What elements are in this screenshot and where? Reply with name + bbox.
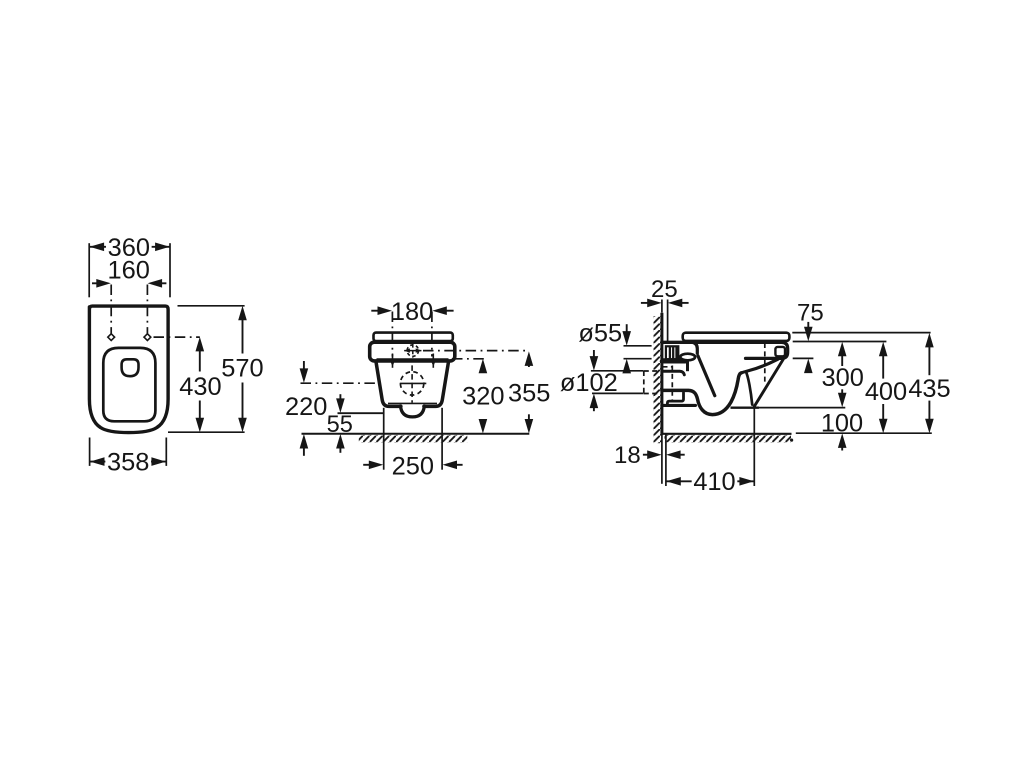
svg-text:25: 25 bbox=[651, 276, 678, 303]
svg-text:180: 180 bbox=[391, 298, 433, 326]
svg-text:355: 355 bbox=[508, 380, 550, 408]
svg-text:18: 18 bbox=[614, 442, 641, 469]
svg-text:430: 430 bbox=[179, 373, 221, 401]
svg-text:410: 410 bbox=[693, 468, 735, 496]
svg-text:ø102: ø102 bbox=[560, 369, 618, 397]
svg-text:400: 400 bbox=[865, 378, 907, 406]
svg-text:300: 300 bbox=[822, 364, 864, 392]
svg-text:75: 75 bbox=[797, 299, 824, 326]
svg-text:55: 55 bbox=[327, 412, 353, 438]
svg-text:358: 358 bbox=[107, 449, 149, 477]
svg-text:100: 100 bbox=[821, 409, 863, 437]
svg-text:570: 570 bbox=[221, 355, 263, 383]
svg-text:435: 435 bbox=[908, 375, 950, 403]
svg-text:250: 250 bbox=[392, 453, 434, 481]
svg-text:160: 160 bbox=[108, 257, 150, 285]
svg-text:320: 320 bbox=[462, 382, 504, 410]
svg-text:ø55: ø55 bbox=[578, 320, 622, 348]
svg-text:220: 220 bbox=[285, 393, 327, 421]
